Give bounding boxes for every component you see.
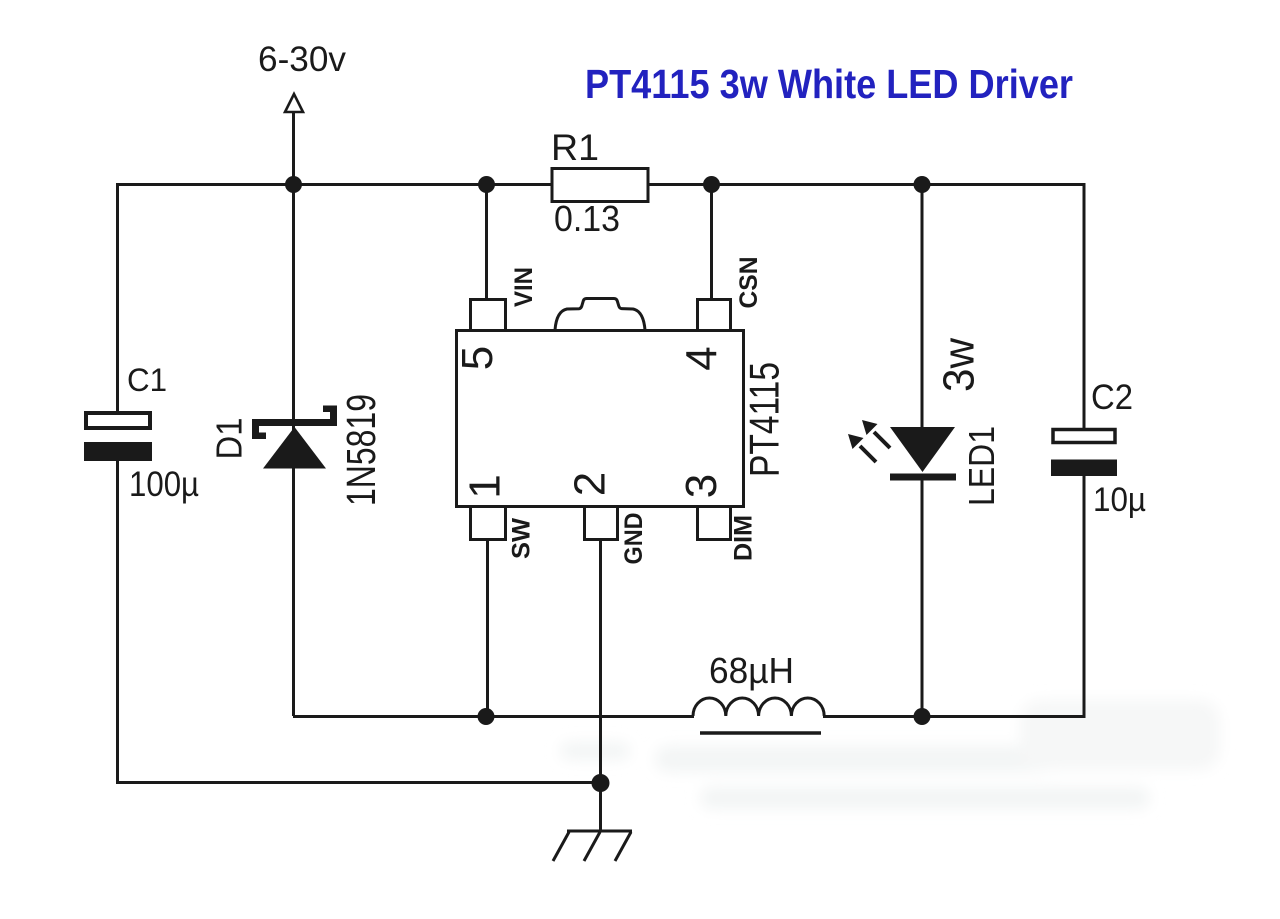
cathode bar with schottky hooks (252, 419, 337, 426)
wire VIN branch (485, 184, 488, 300)
svg-text:100µ: 100µ (129, 465, 199, 504)
pin 1 box (471, 507, 506, 540)
node junction ground (592, 774, 610, 792)
svg-text:6-30v: 6-30v (258, 40, 346, 79)
svg-text:D1: D1 (209, 418, 250, 460)
svg-text:1N5819: 1N5819 (338, 394, 384, 506)
LED LED1 (890, 427, 955, 472)
svg-text:R1: R1 (551, 127, 599, 168)
svg-text:LED1: LED1 (961, 426, 1002, 506)
wire SW pin 1 down (486, 539, 489, 716)
wire C2 vertical bottom (1083, 474, 1086, 718)
svg-text:5: 5 (453, 346, 502, 370)
wire D1 vertical (292, 184, 295, 716)
pin 4 box (698, 300, 731, 331)
svg-text:GND: GND (620, 513, 648, 565)
pin 5 box (471, 300, 506, 331)
svg-text:PT4115 3w White LED Driver: PT4115 3w White LED Driver (585, 61, 1073, 107)
wire bottom ground rail (116, 781, 600, 784)
resistor R1 (552, 169, 648, 202)
pin 3 box (698, 507, 731, 540)
svg-text:3w: 3w (935, 338, 984, 392)
svg-text:68µH: 68µH (709, 650, 794, 691)
svg-text:1: 1 (461, 474, 510, 498)
wire C2 vertical top (1083, 183, 1086, 430)
inductor 68uH (693, 698, 824, 716)
wire power stub (292, 112, 295, 184)
anode triangle (263, 427, 326, 469)
svg-text:4: 4 (678, 346, 727, 370)
svg-text:VIN: VIN (510, 267, 538, 307)
wire GND pin 2 down (599, 539, 602, 783)
IC U1 PT4115 body (457, 331, 744, 507)
svg-text:C2: C2 (1091, 378, 1133, 417)
svg-text:SW: SW (508, 518, 536, 559)
node junction top CSN (703, 176, 720, 193)
wire bottom rail left of inductor (293, 715, 694, 718)
node junction top D1 (285, 176, 302, 193)
diode D1 1N5819 (252, 406, 337, 469)
power arrow 6-30v (285, 94, 303, 112)
svg-text:PT4115: PT4115 (741, 362, 788, 477)
svg-text:CSN: CSN (735, 257, 763, 309)
svg-text:3: 3 (677, 474, 726, 498)
wire left vertical (C1 top) (116, 183, 119, 412)
LED emission arrow 1 (848, 434, 876, 462)
svg-text:2: 2 (566, 472, 615, 496)
svg-text:DIM: DIM (730, 515, 758, 561)
svg-text:10µ: 10µ (1093, 481, 1146, 519)
wire top rail (117, 183, 1084, 186)
capacitor C1 (86, 413, 150, 428)
pin 2 box (585, 507, 618, 540)
wire LED branch bottom (921, 478, 924, 716)
faint watermark ghost (560, 700, 1220, 809)
LED emission arrow 2 (862, 420, 890, 448)
svg-text:0.13: 0.13 (554, 198, 620, 239)
IC top bump (555, 299, 645, 331)
ground (553, 783, 632, 861)
capacitor C2 (1053, 430, 1115, 443)
wire LED branch top (921, 184, 924, 430)
wire bottom rail right of inductor (823, 715, 1084, 718)
node junction top VIN (478, 176, 495, 193)
svg-text:C1: C1 (127, 362, 167, 398)
wire CSN branch (710, 184, 713, 300)
node junction top LED (914, 176, 931, 193)
node junction bottom LED (914, 708, 931, 725)
wire left vertical (C1 bottom) (116, 460, 119, 783)
node junction bottom SW (478, 708, 495, 725)
